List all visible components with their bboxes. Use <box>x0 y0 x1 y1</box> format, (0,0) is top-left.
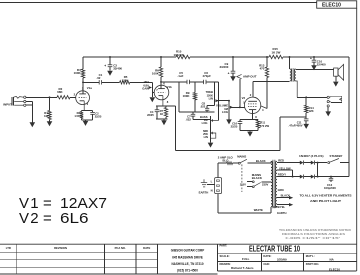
svg-text:1.5K: 1.5K <box>74 114 80 118</box>
svg-text:645 MASSMAN DRIVE: 645 MASSMAN DRIVE <box>172 255 203 259</box>
svg-text:.02: .02 <box>96 76 100 80</box>
svg-text:.022: .022 <box>200 105 206 109</box>
svg-text:NASHVILLE, TN 37210: NASHVILLE, TN 37210 <box>172 262 204 266</box>
svg-text:TO ALL 6.3V HEATER FILAMENTS: TO ALL 6.3V HEATER FILAMENTS <box>300 194 352 198</box>
svg-text:YELLOW: YELLOW <box>279 166 291 170</box>
svg-text:1K: 1K <box>160 112 163 116</box>
svg-text:LOG: LOG <box>202 121 208 125</box>
svg-text:+: + <box>104 64 106 68</box>
svg-text:22/25: 22/25 <box>147 113 154 117</box>
svg-text:EARTH: EARTH <box>199 190 209 194</box>
svg-text:SCALE:: SCALE: <box>220 254 230 258</box>
svg-text:ELECTAR TUBE 10: ELECTAR TUBE 10 <box>249 244 300 253</box>
svg-text:.47uF/400V: .47uF/400V <box>289 124 303 128</box>
svg-text:FULL: FULL <box>242 257 250 261</box>
svg-text:33/400: 33/400 <box>220 65 229 69</box>
svg-text:.022: .022 <box>186 118 192 122</box>
svg-text:AND PILOT LIGHT: AND PILOT LIGHT <box>310 199 341 203</box>
svg-text:+: + <box>228 71 230 75</box>
svg-text:N: N <box>211 188 213 192</box>
svg-text:ELEC10: ELEC10 <box>329 267 340 271</box>
svg-text:120K: 120K <box>122 78 130 82</box>
svg-text:LIN: LIN <box>209 97 213 101</box>
svg-text:DRAWN:: DRAWN: <box>220 262 231 266</box>
svg-text:33/400: 33/400 <box>113 67 122 71</box>
svg-text:2/25/99: 2/25/99 <box>277 257 287 261</box>
svg-text:BLO: BLO <box>223 158 230 162</box>
svg-text:8: 8 <box>167 100 169 104</box>
svg-text:2: 2 <box>74 92 76 96</box>
svg-text:68K: 68K <box>57 90 63 94</box>
svg-text:LTR: LTR <box>6 246 11 250</box>
svg-text:470: 470 <box>260 67 265 71</box>
svg-text:V1b: V1b <box>167 85 172 89</box>
svg-text:22/400: 22/400 <box>317 63 326 67</box>
svg-text:22/25: 22/25 <box>231 125 238 129</box>
svg-text:BLACK: BLACK <box>252 176 263 180</box>
svg-text:BLACK: BLACK <box>281 194 290 198</box>
svg-text:100K: 100K <box>74 71 82 75</box>
svg-text:RED: RED <box>278 158 284 162</box>
svg-text:+: + <box>310 56 312 60</box>
svg-text:10K/1W: 10K/1W <box>174 53 185 57</box>
svg-text:1N4007 (4 PLCS): 1N4007 (4 PLCS) <box>299 154 324 158</box>
svg-text:Richard T. Akers: Richard T. Akers <box>231 266 254 270</box>
svg-text:4: 4 <box>262 108 264 112</box>
svg-text:12K: 12K <box>309 109 314 113</box>
svg-text:7: 7 <box>156 88 158 92</box>
svg-text:=: = <box>43 210 52 227</box>
svg-text:DATE: DATE <box>143 246 150 250</box>
svg-text:6L6: 6L6 <box>60 210 89 227</box>
svg-text:1M: 1M <box>44 114 49 118</box>
svg-text:RED/Y: RED/Y <box>278 173 286 177</box>
svg-text:3: 3 <box>87 102 89 106</box>
svg-text:ELEC10: ELEC10 <box>322 3 341 9</box>
svg-text:PART:: PART: <box>220 244 228 248</box>
svg-text:100p/600: 100p/600 <box>324 186 336 190</box>
svg-text:(615) 871-4500: (615) 871-4500 <box>177 269 198 273</box>
svg-text:EARTH: EARTH <box>277 211 286 215</box>
svg-text:GAIN: GAIN <box>142 87 149 91</box>
svg-text:V1a: V1a <box>87 86 92 90</box>
svg-text:REVISION: REVISION <box>54 246 67 250</box>
svg-text:BLACK: BLACK <box>256 159 266 163</box>
svg-text:2: 2 <box>250 93 252 97</box>
svg-text:PCA NO.: PCA NO. <box>115 246 126 250</box>
svg-text:MAT'L:: MAT'L: <box>306 254 315 258</box>
svg-text:L: L <box>211 179 213 183</box>
svg-text:1K 2W: 1K 2W <box>272 50 281 54</box>
svg-text:GIBSON GUITAR CORP: GIBSON GUITAR CORP <box>171 249 205 253</box>
svg-text:NA: NA <box>330 257 335 261</box>
svg-text:AMP OUT: AMP OUT <box>243 74 257 78</box>
svg-text:INPUT: INPUT <box>3 102 12 106</box>
svg-text:230V: 230V <box>262 182 268 186</box>
svg-text:LOG: LOG <box>222 110 228 114</box>
svg-text:PART NO.:: PART NO.: <box>306 262 320 266</box>
svg-text:8: 8 <box>255 115 257 119</box>
svg-text:STANDBY: STANDBY <box>330 154 343 158</box>
svg-text:470pF: 470pF <box>203 74 212 78</box>
svg-text:GRN/YEL: GRN/YEL <box>273 205 285 209</box>
svg-text:GRN: GRN <box>278 188 284 192</box>
svg-text:100K: 100K <box>152 72 160 76</box>
svg-text:±.005 ±1/64" ±0°15': ±.005 ±1/64" ±0°15' <box>285 236 341 240</box>
svg-text:.1uF: .1uF <box>177 74 183 78</box>
svg-text:V2: V2 <box>19 210 40 227</box>
svg-text:LIN: LIN <box>204 135 208 139</box>
svg-text:115V: 115V <box>240 182 246 186</box>
svg-text:DATE:: DATE: <box>263 254 271 258</box>
svg-text:V2: V2 <box>242 96 246 100</box>
svg-text:CHK:: CHK: <box>263 262 270 266</box>
svg-text:WHITE: WHITE <box>254 208 263 212</box>
svg-text:MAINS: MAINS <box>237 155 246 159</box>
svg-text:22/25: 22/25 <box>95 115 102 119</box>
svg-text:470 2W: 470 2W <box>260 124 270 128</box>
svg-text:100K: 100K <box>183 94 191 98</box>
